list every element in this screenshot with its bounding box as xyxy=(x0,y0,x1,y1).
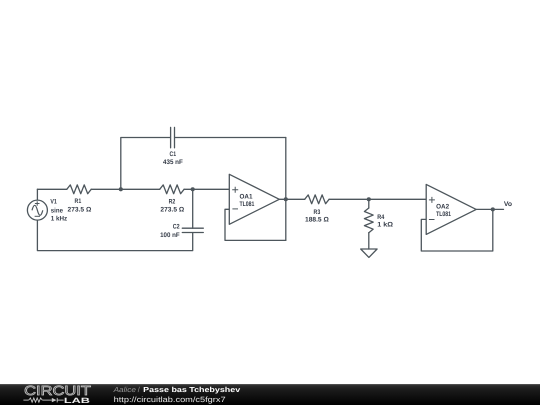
wire R3 to OA2 plus input xyxy=(329,198,426,200)
node Vo xyxy=(491,207,495,211)
svg-text:R4: R4 xyxy=(377,214,384,221)
op-amp OA2 xyxy=(426,184,476,234)
node OA1 output xyxy=(284,197,288,201)
svg-text:R2: R2 xyxy=(169,198,176,205)
capacitor C2 xyxy=(182,228,203,232)
svg-text:C1: C1 xyxy=(170,151,177,158)
OA1 plus input mark xyxy=(232,187,238,193)
node C2 tap xyxy=(191,187,195,191)
wire R4 to ground xyxy=(368,233,370,249)
svg-text:Passe bas Tchebyshev: Passe bas Tchebyshev xyxy=(143,385,240,394)
labels xyxy=(50,151,512,239)
svg-text:R3: R3 xyxy=(314,209,321,216)
svg-text:http://circuitlab.com/c5fgrx7: http://circuitlab.com/c5fgrx7 xyxy=(114,395,226,404)
svg-text:Aalice: Aalice xyxy=(112,385,135,394)
svg-text:TL081: TL081 xyxy=(240,201,255,208)
OA1 triangle body xyxy=(229,174,279,224)
svg-text:sine: sine xyxy=(51,207,63,214)
logo squiggle resistor+diode xyxy=(23,398,63,403)
wire OA2 minus feedback xyxy=(421,209,493,251)
svg-text:OA1: OA1 xyxy=(240,193,253,200)
OA1 minus input mark xyxy=(232,208,238,210)
svg-text:1 kΩ: 1 kΩ xyxy=(377,222,393,229)
wire R1 to R2 xyxy=(91,188,160,190)
node junction dots xyxy=(119,187,495,211)
wire OA2 output to Vo xyxy=(476,208,503,210)
resistor R4 xyxy=(364,208,373,233)
OA2 minus input mark xyxy=(429,219,435,221)
wire V1 top stub xyxy=(36,189,38,200)
svg-text:LAB: LAB xyxy=(64,396,91,405)
capacitor C1 xyxy=(171,127,175,147)
resistor R1 xyxy=(67,185,91,194)
wire main rail V1 to R1 xyxy=(37,188,66,190)
svg-text:/: / xyxy=(138,385,140,394)
svg-text:Vo: Vo xyxy=(504,201,512,208)
svg-text:188.5 Ω: 188.5 Ω xyxy=(305,217,330,224)
svg-text:C2: C2 xyxy=(173,224,180,231)
wire C2 top stub xyxy=(192,189,194,228)
OA2 triangle body xyxy=(426,184,476,234)
V1 sine symbol xyxy=(32,205,43,215)
wire C1 to right riser xyxy=(175,137,286,139)
svg-text:R1: R1 xyxy=(75,198,82,205)
wire right riser / OA1 feedback vertical xyxy=(285,138,287,241)
svg-text:100 nF: 100 nF xyxy=(160,232,180,239)
svg-text:TL081: TL081 xyxy=(436,211,451,218)
wire R4 top stub xyxy=(368,199,370,208)
wire C1 loop left riser xyxy=(121,138,171,190)
node C1 tap xyxy=(119,187,123,191)
op-amp OA1 xyxy=(229,174,279,224)
node R4 tap xyxy=(367,197,371,201)
V1 plus polarity mark xyxy=(35,201,40,206)
resistor R2 xyxy=(160,185,184,194)
resistor R3 xyxy=(305,195,329,204)
OA2 plus input mark xyxy=(429,197,435,203)
wire OA1 output to R3 xyxy=(279,198,304,200)
svg-text:V1: V1 xyxy=(50,199,57,206)
svg-text:435 nF: 435 nF xyxy=(163,159,183,166)
svg-text:273.5 Ω: 273.5 Ω xyxy=(160,206,185,213)
voltage source V1 xyxy=(27,200,47,220)
V1 minus polarity mark xyxy=(35,215,40,217)
svg-text:1 kHz: 1 kHz xyxy=(51,215,68,222)
V1 circle body xyxy=(27,200,47,220)
wire OA1 minus feedback xyxy=(225,209,286,240)
wire R2 to OA1 plus input xyxy=(184,188,229,190)
svg-text:273.5 Ω: 273.5 Ω xyxy=(68,206,93,213)
svg-text:OA2: OA2 xyxy=(436,203,449,210)
wire C2 bottom to V1 bottom xyxy=(37,220,192,251)
ground xyxy=(361,249,377,257)
footer bar xyxy=(0,384,540,405)
